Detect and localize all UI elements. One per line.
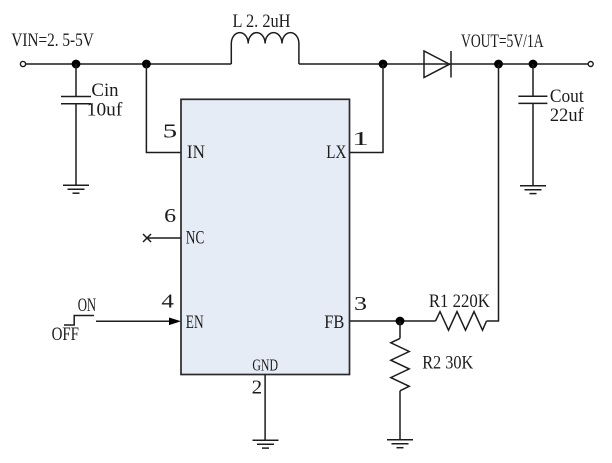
svg-text:2: 2 — [252, 377, 263, 399]
resistor R2 — [391, 338, 409, 390]
NC stub wire — [147, 237, 181, 239]
node at IN branch — [142, 60, 151, 69]
IC U1 body — [181, 99, 350, 374]
svg-text:ON: ON — [78, 296, 97, 316]
ground below R2 — [387, 440, 413, 448]
EN arrowhead — [169, 318, 181, 326]
svg-text:3: 3 — [354, 293, 367, 315]
capacitor Cin — [61, 97, 91, 104]
switch step symbol — [64, 316, 94, 326]
wire diode to output terminal — [451, 63, 588, 65]
terminal VOUT — [588, 62, 593, 67]
svg-text:R1 220K: R1 220K — [429, 291, 490, 312]
wire R1 to VOUT — [487, 64, 499, 321]
wire to IN pin — [146, 64, 181, 153]
svg-text:EN: EN — [186, 312, 204, 333]
svg-text:VOUT=5V/1A: VOUT=5V/1A — [461, 31, 544, 52]
GND pin wire — [264, 375, 266, 441]
svg-text:5: 5 — [163, 121, 178, 143]
svg-text:10uf: 10uf — [87, 101, 123, 121]
svg-text:Cin: Cin — [91, 81, 118, 101]
NC no-connect X — [143, 234, 151, 242]
svg-text:Cout: Cout — [550, 87, 585, 107]
inductor L — [231, 33, 299, 64]
wire R2 to ground — [399, 391, 401, 440]
wire VIN rail — [26, 63, 232, 65]
diode D1 — [424, 51, 451, 78]
label Cout value — [550, 87, 585, 126]
svg-text:OFF: OFF — [52, 325, 79, 345]
wire Cout top lead — [532, 64, 534, 96]
svg-text:GND: GND — [252, 355, 278, 374]
terminal VIN — [20, 61, 25, 66]
ground below Cout — [520, 186, 546, 194]
svg-text:L 2. 2uH: L 2. 2uH — [233, 12, 291, 32]
node at Cin — [72, 60, 81, 69]
wire FB to node — [350, 320, 436, 322]
svg-text:4: 4 — [161, 290, 174, 312]
svg-text:VIN=2. 5-5V: VIN=2. 5-5V — [11, 30, 94, 51]
node at feedback branch — [494, 60, 503, 69]
node at FB divider — [396, 317, 405, 326]
capacitor Cout — [518, 96, 547, 103]
wire inductor to diode — [299, 63, 451, 65]
node at LX branch — [379, 60, 388, 69]
wire node to R2 — [399, 321, 401, 338]
svg-text:IN: IN — [187, 142, 205, 163]
ground below Cin — [63, 185, 89, 193]
resistor R1 — [436, 312, 487, 331]
wire Cout bottom lead — [532, 103, 534, 185]
node at Cout — [529, 60, 538, 69]
svg-text:LX: LX — [326, 142, 346, 163]
ground below IC — [253, 440, 279, 448]
svg-text:6: 6 — [164, 205, 176, 227]
EN arrow wire — [96, 320, 172, 322]
label Cin value — [87, 81, 123, 121]
svg-text:NC: NC — [186, 228, 204, 249]
svg-text:FB: FB — [324, 312, 344, 333]
svg-text:22uf: 22uf — [550, 106, 585, 126]
wire to LX pin — [350, 64, 384, 153]
wire Cin bottom lead — [75, 104, 77, 186]
wire Cin top lead — [75, 64, 77, 97]
svg-text:R2 30K: R2 30K — [422, 352, 473, 373]
svg-text:1: 1 — [352, 128, 369, 150]
